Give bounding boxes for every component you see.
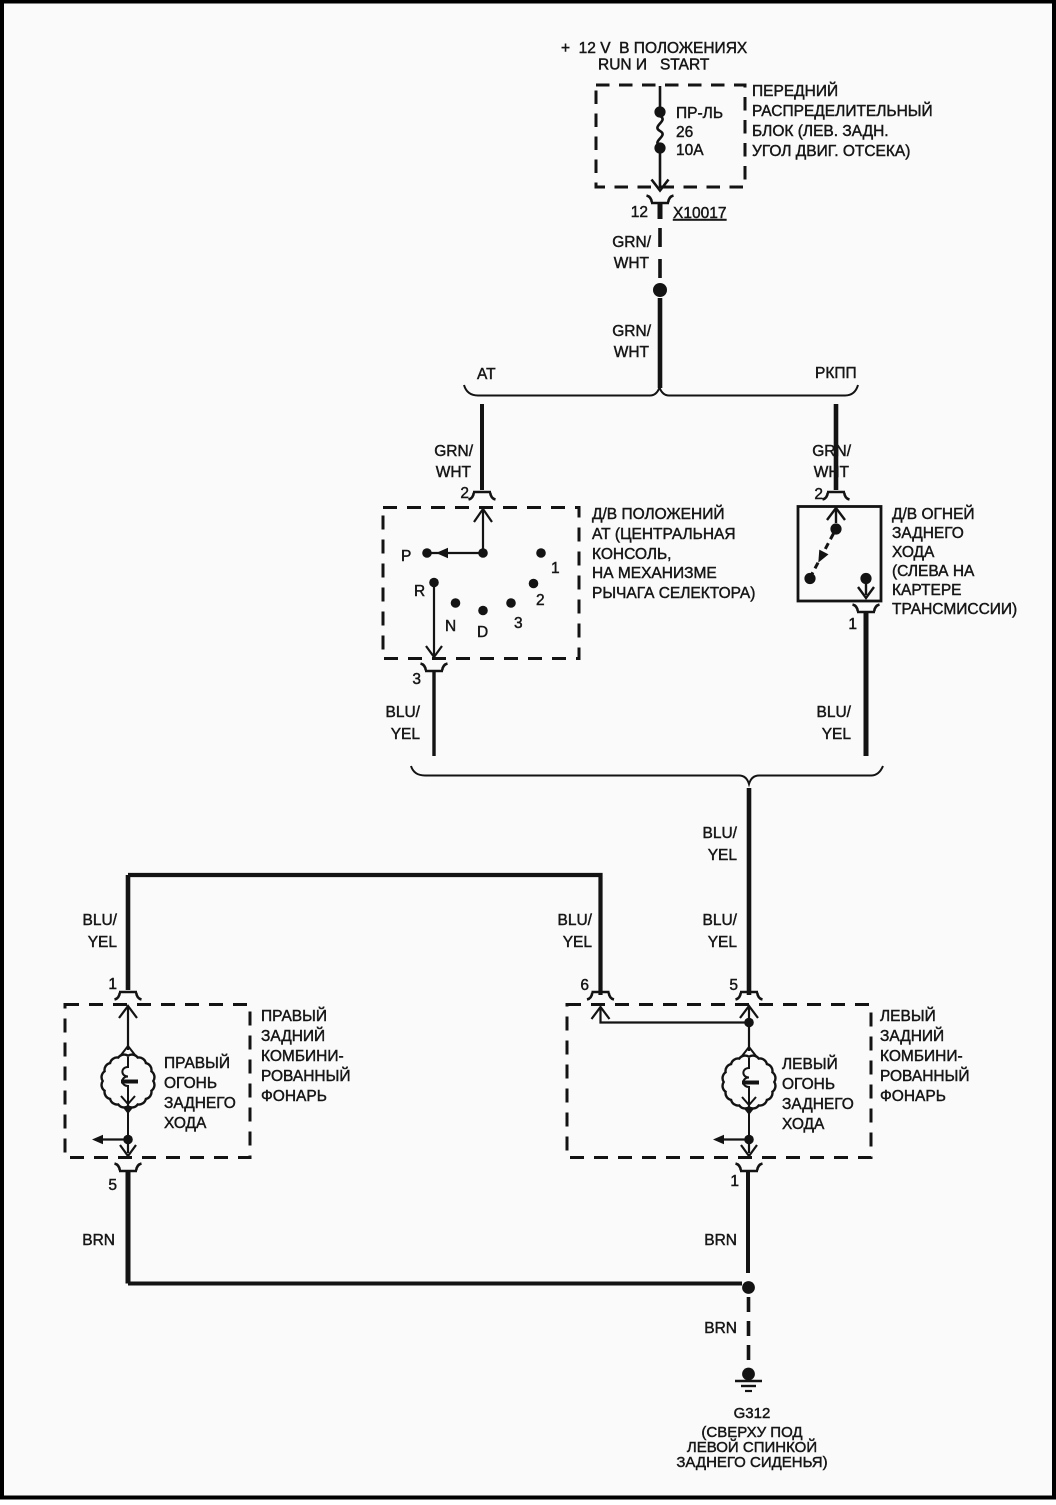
svg-text:BLU/: BLU/ [558,912,593,929]
svg-text:КАРТЕРЕ: КАРТЕРЕ [892,582,962,599]
svg-text:2: 2 [536,592,545,609]
left rear combination lamp box (dashed) [567,1005,871,1158]
svg-text:BRN: BRN [704,1232,737,1249]
svg-text:Д/В ОГНЕЙ: Д/В ОГНЕЙ [892,505,975,523]
label GRN/WHT left branch [434,443,473,481]
svg-text:BRN: BRN [704,1320,737,1337]
selector P contact row wire + wiper [429,548,483,558]
svg-text:26: 26 [676,124,693,141]
svg-text:D: D [477,624,488,641]
svg-text:WHT: WHT [814,464,850,481]
svg-text:YEL: YEL [822,726,852,743]
svg-text:WHT: WHT [614,344,650,361]
selector position labels [401,548,560,641]
svg-text:ХОДА: ХОДА [892,544,935,561]
svg-text:1: 1 [108,976,117,993]
svg-text:1: 1 [730,1173,739,1190]
svg-text:2: 2 [814,486,823,503]
merge bracket of AT / RKPP outputs [411,766,883,784]
switch lower-left contact dot [804,573,815,584]
connector pin 2 (AT switch) [460,485,495,502]
svg-text:YEL: YEL [391,726,421,743]
wire BRN from right lamp [126,1171,131,1284]
svg-text:BLU/: BLU/ [386,704,421,721]
svg-text:РОВАННЫЙ: РОВАННЫЙ [261,1067,350,1085]
backup lamp bulb (right) [102,1046,155,1135]
label BLU/YEL (left lamp) [83,912,118,951]
svg-text:YEL: YEL [708,847,738,864]
svg-text:BLU/: BLU/ [703,825,738,842]
right rear lamp housing label [261,1007,350,1105]
svg-text:N: N [445,618,456,635]
ground G312 label [676,1405,827,1471]
svg-text:2: 2 [460,485,469,502]
wire BRN bottom run [128,1282,742,1286]
left rear lamp housing label [880,1007,969,1105]
ground G312 symbol [735,1368,762,1391]
svg-text:6: 6 [580,977,589,994]
svg-text:ОГОНЬ: ОГОНЬ [782,1076,835,1093]
lamp branch arrow left (left lamp) [713,1135,747,1145]
connector pin 3 (below AT switch) [412,664,447,689]
svg-text:GRN/: GRN/ [434,443,473,460]
svg-text:ЗАДНЕГО СИДЕНЬЯ): ЗАДНЕГО СИДЕНЬЯ) [676,1454,827,1471]
svg-text:ХОДА: ХОДА [164,1115,207,1132]
svg-text:YEL: YEL [88,934,118,951]
svg-text:УГОЛ ДВИГ. ОТСЕКА): УГОЛ ДВИГ. ОТСЕКА) [752,143,910,160]
wire BRN dashed to ground [747,1297,751,1366]
svg-text:РКПП: РКПП [815,365,857,382]
label BLU/YEL left [386,704,421,743]
fuse value labels [676,105,723,159]
label BLU/YEL main lower [703,912,738,951]
svg-text:(СЛЕВА НА: (СЛЕВА НА [892,563,975,580]
lamp pin6 internal arrow + crossover [592,1007,750,1023]
backup light switch box [798,507,881,602]
svg-text:BLU/: BLU/ [703,912,738,929]
switch output arrow [858,584,874,598]
connector pin 5 (left rear lamp) [729,977,762,1000]
svg-text:ЗАДНЕГО: ЗАДНЕГО [782,1096,854,1113]
svg-text:GRN/: GRN/ [612,234,651,251]
lamp input arrow [119,1006,137,1050]
svg-text:ФОНАРЬ: ФОНАРЬ [880,1088,946,1105]
svg-text:ЛЕВЫЙ: ЛЕВЫЙ [880,1007,936,1025]
svg-text:КОМБИНИ-: КОМБИНИ- [880,1048,963,1065]
svg-text:+ 12 V В ПОЛОЖЕНИЯХ: + 12 V В ПОЛОЖЕНИЯХ [561,40,748,57]
lamp pin5 input wire [748,1007,750,1051]
svg-text:1: 1 [848,616,857,633]
svg-text:WHT: WHT [436,464,472,481]
switch upper contact dot [830,523,841,534]
split bracket to AT / RKPP branches [464,385,858,396]
svg-text:3: 3 [412,671,421,688]
label GRN/WHT right branch [812,443,851,481]
backup lamp bulb (left) [723,1047,776,1135]
switch output contact dot [860,573,871,584]
label BLU/YEL main upper [703,825,738,864]
svg-text:ЗАДНИЙ: ЗАДНИЙ [880,1027,944,1045]
svg-text:ПРАВЫЙ: ПРАВЫЙ [261,1007,327,1025]
wire BLU/YEL main down [747,788,752,995]
right rear combination lamp box (dashed) [65,1005,250,1158]
lamp junction dot (left lamp) [744,1135,754,1145]
node +12V feed label [561,40,748,74]
svg-text:12: 12 [631,204,648,221]
selector junction dot on P row [478,548,488,558]
svg-text:ЗАДНИЙ: ЗАДНИЙ [261,1027,325,1045]
wire BLU/YEL from AT switch [432,671,435,756]
connector pin 1 (below left lamp) [730,1164,762,1191]
fuse ПР-ЛЬ 26 10A [652,86,669,191]
AT switch name label [592,505,755,602]
svg-text:ХОДА: ХОДА [782,1116,825,1133]
lamp name (left backup light) [782,1055,854,1133]
svg-text:ПРАВЫЙ: ПРАВЫЙ [164,1054,230,1072]
wire GRN/WHT (dashed segment) [658,228,662,282]
lamp junction dot (right lamp) [123,1135,133,1145]
connector pin 1 (below backup switch) [848,605,879,634]
svg-text:YEL: YEL [708,934,738,951]
switch blade (dashed diagonal with arrow) [812,534,834,575]
wire BLU/YEL drop to right lamp area [126,875,131,990]
svg-text:10А: 10А [676,142,704,159]
svg-text:ЗАДНЕГО: ЗАДНЕГО [892,525,964,542]
svg-text:WHT: WHT [614,255,650,272]
svg-text:5: 5 [108,1177,117,1194]
svg-text:АТ (ЦЕНТРАЛЬНАЯ: АТ (ЦЕНТРАЛЬНАЯ [592,526,736,543]
label BLU/YEL (pin 6 branch) [558,912,593,951]
svg-text:НА МЕХАНИЗМЕ: НА МЕХАНИЗМЕ [592,565,717,582]
label GRN/WHT lower [612,323,651,361]
svg-text:5: 5 [729,977,738,994]
svg-text:3: 3 [514,615,523,632]
connector pin 2 (backup switch) [814,486,849,503]
label GRN/WHT upper [612,234,651,272]
svg-text:АТ: АТ [477,366,496,383]
svg-text:РАСПРЕДЕЛИТЕЛЬНЫЙ: РАСПРЕДЕЛИТЕЛЬНЫЙ [752,102,933,120]
svg-text:P: P [401,548,411,565]
svg-text:ТРАНСМИССИИ): ТРАНСМИССИИ) [892,601,1017,618]
connector X10017 pin 12 [631,196,727,223]
wire GRN/WHT solid to split [658,298,663,388]
svg-text:ЛЕВЫЙ: ЛЕВЫЙ [782,1055,838,1073]
connector pin 5 (below right lamp) [108,1164,141,1195]
selector position dots [422,548,546,615]
label BLU/YEL right [817,704,852,743]
svg-text:ОГОНЬ: ОГОНЬ [164,1075,217,1092]
svg-text:РОВАННЫЙ: РОВАННЫЙ [880,1067,969,1085]
wire BLU/YEL from backup switch [864,612,869,756]
svg-text:BLU/: BLU/ [83,912,118,929]
svg-text:X10017: X10017 [673,205,726,222]
svg-text:BRN: BRN [82,1232,115,1249]
svg-text:ПЕРЕДНИЙ: ПЕРЕДНИЙ [752,82,838,100]
selector R output wire with arrow [426,587,442,657]
svg-text:ПР-ЛЬ: ПР-ЛЬ [676,105,723,122]
svg-text:R: R [414,583,425,600]
svg-text:G312: G312 [734,1405,771,1422]
lamp branch arrow left [92,1135,126,1145]
svg-text:BLU/: BLU/ [817,704,852,721]
svg-text:1: 1 [551,560,560,577]
svg-text:ЗАДНЕГО: ЗАДНЕГО [164,1095,236,1112]
svg-text:РЫЧАГА СЕЛЕКТОРА): РЫЧАГА СЕЛЕКТОРА) [592,585,755,602]
backup switch name label [892,505,1017,618]
ground junction dot [742,1281,755,1294]
switch input arrow [827,508,845,523]
svg-text:КОМБИНИ-: КОМБИНИ- [261,1048,344,1065]
lamp name (right backup light) [164,1054,236,1132]
wire BLU/YEL branch to both lamps [128,875,601,995]
splice junction dot [653,283,667,297]
svg-text:БЛОК (ЛЕВ. ЗАДН.: БЛОК (ЛЕВ. ЗАДН. [752,123,889,140]
svg-text:ФОНАРЬ: ФОНАРЬ [261,1088,327,1105]
connector pin 1 (right rear lamp) [108,976,141,1000]
front power distribution box (dashed) [596,85,745,187]
lamp output arrow down [120,1141,136,1156]
AT position switch box (dashed) [383,508,579,659]
svg-text:GRN/: GRN/ [812,443,851,460]
wire right branch GRN/WHT [834,404,839,490]
svg-text:КОНСОЛЬ,: КОНСОЛЬ, [592,546,672,563]
lamp output arrow down (left lamp) [741,1141,757,1156]
wire BRN from left lamp [746,1171,750,1273]
wire left branch GRN/WHT [480,404,484,490]
selector common contact arrow [474,509,492,553]
svg-text:GRN/: GRN/ [612,323,651,340]
svg-text:YEL: YEL [563,934,593,951]
svg-text:Д/В ПОЛОЖЕНИЙ: Д/В ПОЛОЖЕНИЙ [592,505,724,523]
lamp crossover junction dot [744,1018,754,1028]
svg-text:RUN И START: RUN И START [598,57,710,74]
distribution box name label [752,82,933,160]
connector pin 6 (left rear lamp) [580,977,614,1000]
